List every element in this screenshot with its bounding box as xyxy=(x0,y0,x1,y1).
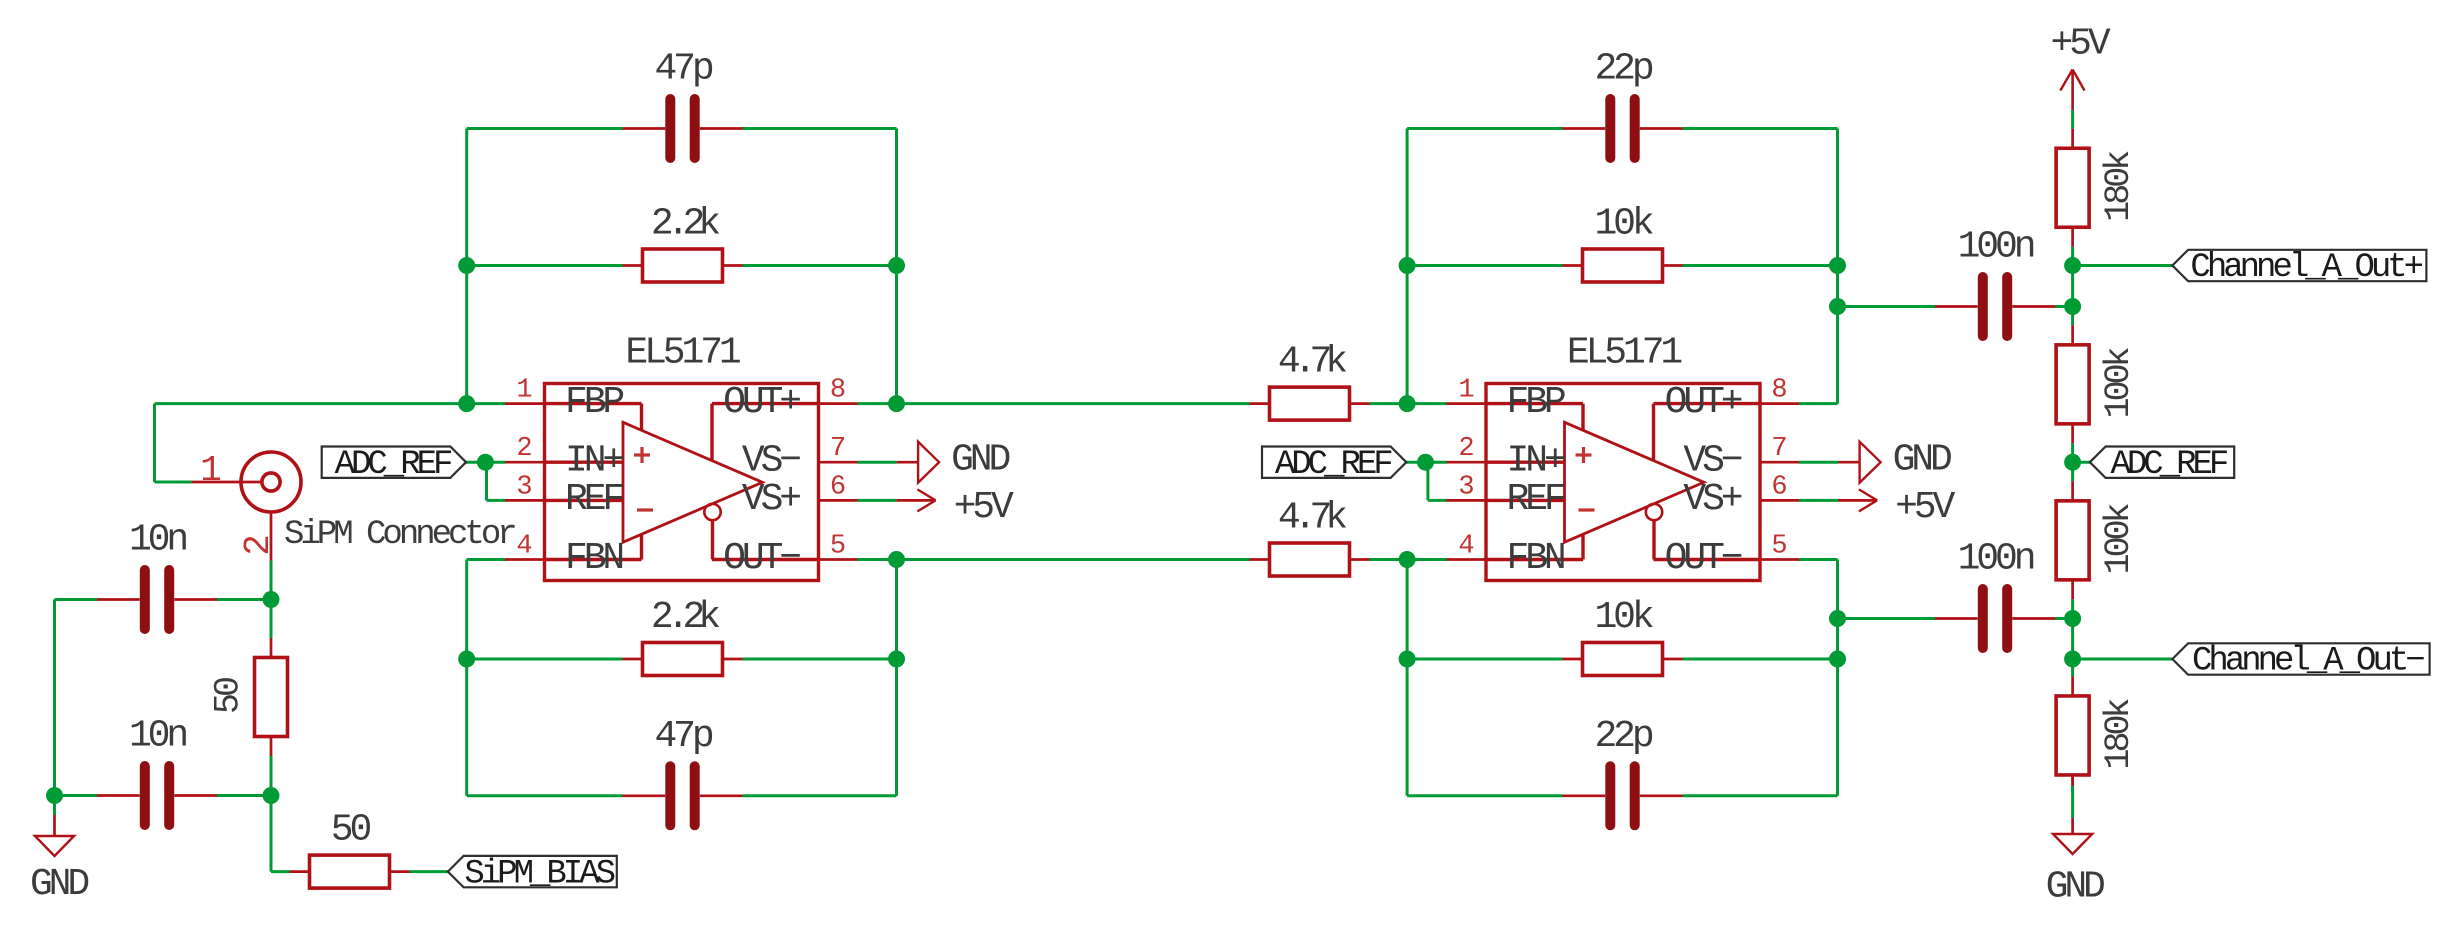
wire 10k upper right xyxy=(1683,264,1838,267)
svg-text:ADC_REF: ADC_REF xyxy=(2110,446,2227,484)
wire 2.2k upper left xyxy=(467,264,623,267)
op-amp U1 internal pin lines xyxy=(545,404,819,560)
capacitor C 10n lower xyxy=(97,715,217,826)
capacitor C 100n lower xyxy=(1935,538,2055,649)
svg-text:FBP: FBP xyxy=(565,381,623,424)
svg-text:4: 4 xyxy=(1458,532,1474,562)
wire 50 to SiPM_BIAS label xyxy=(410,870,448,873)
svg-text:4.7k: 4.7k xyxy=(1278,341,1346,384)
wire 10n lower right xyxy=(217,794,271,797)
svg-text:50: 50 xyxy=(331,809,371,852)
global label Channel_A_Out+ (output plus) xyxy=(2172,249,2426,287)
svg-text:ADC_REF: ADC_REF xyxy=(335,446,452,484)
svg-text:GND: GND xyxy=(1893,439,1951,482)
op-amp U1 EL5171 body xyxy=(545,384,819,581)
wire FBP1 net horizontal xyxy=(155,402,506,405)
wire 2.2k upper right xyxy=(743,264,897,267)
resistor R 2.2k upper xyxy=(623,203,743,283)
svg-text:8: 8 xyxy=(1771,376,1787,406)
wire ADC_REF to REF pin stage1 xyxy=(487,462,506,500)
junction OUT- stage1 xyxy=(888,551,905,568)
wire U1 pin6 to +5V flag xyxy=(858,499,897,502)
svg-text:VS−: VS− xyxy=(742,440,800,483)
svg-text:4: 4 xyxy=(516,532,532,562)
junction OUT+ stage1 xyxy=(888,395,905,412)
svg-text:1: 1 xyxy=(1458,376,1474,406)
global label ADC_REF (stage 1) wire xyxy=(466,461,505,464)
junction ADC_REF stage1 xyxy=(477,454,494,471)
wire U2 pin7 to GND flag xyxy=(1799,461,1838,464)
junction ADC_REF right xyxy=(2064,454,2081,471)
svg-text:100n: 100n xyxy=(1958,538,2034,581)
svg-text:4.7k: 4.7k xyxy=(1278,497,1346,540)
svg-text:SiPM Connector: SiPM Connector xyxy=(284,516,515,554)
wire 47p lower left xyxy=(467,794,623,797)
global label ADC_REF (left of U2 IN+) xyxy=(1262,446,1406,484)
wire ADC_REF to REF pin stage2 xyxy=(1428,462,1447,500)
junction FBP2 xyxy=(1399,395,1416,412)
wire 180k to Channel_A_Out+ node xyxy=(2071,247,2074,266)
wire stage2 right feedback vertical top xyxy=(1836,129,1839,404)
junction Channel_A_Out- node xyxy=(2064,651,2081,668)
wire 4.7k lower to stage2 FBN xyxy=(1370,558,1448,561)
wire 22p upper right xyxy=(1683,127,1838,130)
junction 2.2k lower left xyxy=(458,651,475,668)
svg-text:22p: 22p xyxy=(1594,715,1652,758)
op-amp U1 pin 3 REF xyxy=(505,472,623,521)
resistor R 2.2k lower xyxy=(623,596,743,676)
op-amp U1 pin 6 VS+ xyxy=(742,472,858,521)
svg-text:100n: 100n xyxy=(1958,226,2034,269)
svg-text:OUT−: OUT− xyxy=(723,537,800,580)
wire +5V to 180k xyxy=(2071,110,2074,129)
op-amp U2 pin 5 OUT&#8722; xyxy=(1665,532,1799,581)
wire 10k upper left xyxy=(1407,264,1562,267)
svg-text:22p: 22p xyxy=(1594,48,1652,91)
svg-text:2: 2 xyxy=(516,434,532,464)
wire 10n upper right xyxy=(217,598,271,601)
op-amp U1 pin 4 FBN xyxy=(505,532,622,581)
wire rail between out+ and cap node xyxy=(2071,266,2074,307)
op-amp U1 pin 2 IN+ xyxy=(505,434,623,483)
resistor R 50 bias xyxy=(290,809,410,889)
svg-text:7: 7 xyxy=(830,434,846,464)
wire left ground rail vertical xyxy=(53,600,56,796)
svg-text:VS+: VS+ xyxy=(1683,478,1741,521)
svg-text:2: 2 xyxy=(1458,434,1474,464)
junction 2.2k upper left xyxy=(458,257,475,274)
svg-text:2.2k: 2.2k xyxy=(651,596,719,639)
op-amp U2 EL5171 body xyxy=(1486,384,1760,581)
wire 10n upper left xyxy=(55,598,98,601)
svg-text:EL5171: EL5171 xyxy=(625,332,740,375)
wire 100n lower to rail xyxy=(2055,617,2073,620)
svg-text:10n: 10n xyxy=(129,519,186,562)
svg-text:2: 2 xyxy=(238,534,279,556)
junction 100n lower right xyxy=(2064,610,2081,627)
resistor R 100k lower xyxy=(2056,481,2139,599)
SiPM connector pin 1 lead xyxy=(191,450,262,491)
wire rail cap node to 100k upper xyxy=(2071,307,2074,326)
wire 47p upper left xyxy=(467,127,623,130)
op-amp U2 pin 4 FBN xyxy=(1447,532,1564,581)
svg-text:47p: 47p xyxy=(654,715,712,758)
wire 4.7k upper to stage2 FBP xyxy=(1370,402,1448,405)
svg-text:EL5171: EL5171 xyxy=(1567,332,1682,375)
svg-text:GND: GND xyxy=(951,439,1009,482)
ground symbol (left GND) xyxy=(30,836,88,906)
power flag +5V (U1 VS+) xyxy=(897,486,1014,529)
svg-text:5: 5 xyxy=(830,532,846,562)
power symbol +5V top xyxy=(2050,23,2110,111)
op-amp U2 pin 3 REF xyxy=(1447,472,1565,521)
svg-text:VS+: VS+ xyxy=(742,478,800,521)
svg-text:GND: GND xyxy=(30,863,88,906)
svg-text:Channel_A_Out−: Channel_A_Out− xyxy=(2192,643,2424,681)
resistor R 50 termination xyxy=(209,638,288,756)
wire to 100n upper xyxy=(1838,305,1936,308)
op-amp U2 triangle xyxy=(1565,422,1704,542)
power flag GND (U1 VS-) xyxy=(897,439,1010,483)
op-amp U1 pin 8 OUT+ xyxy=(723,376,857,425)
wire stage2 left feedback vertical bottom xyxy=(1406,560,1409,796)
wire stage2 left feedback vertical top xyxy=(1406,129,1409,404)
svg-text:10n: 10n xyxy=(129,715,186,758)
svg-text:10k: 10k xyxy=(1594,203,1652,246)
global label ADC_REF (left of U1 IN+) xyxy=(322,446,466,484)
wire 100n upper to rail xyxy=(2055,305,2073,308)
wire out- node to 180k lower xyxy=(2071,659,2074,676)
wire 10k lower right xyxy=(1683,658,1838,661)
svg-text:FBN: FBN xyxy=(1507,537,1564,580)
junction FBN2 xyxy=(1399,551,1416,568)
svg-text:FBN: FBN xyxy=(565,537,622,580)
global label ADC_REF (stage 2) wire xyxy=(1406,461,1447,464)
svg-text:6: 6 xyxy=(830,472,846,502)
svg-text:VS−: VS− xyxy=(1683,440,1741,483)
wire to 100n lower xyxy=(1838,617,1936,620)
svg-text:50: 50 xyxy=(209,678,249,714)
resistor R 100k upper xyxy=(2056,325,2139,443)
svg-text:6: 6 xyxy=(1771,472,1787,502)
junction 2.2k upper right xyxy=(888,257,905,274)
wire connector pin1 to FBP net xyxy=(155,404,192,482)
wire Channel_A_Out- label wire xyxy=(2073,658,2173,661)
svg-text:8: 8 xyxy=(830,376,846,406)
resistor R 180k lower xyxy=(2056,676,2139,794)
svg-text:+5V: +5V xyxy=(2050,23,2110,66)
op-amp U1 triangle xyxy=(623,422,762,542)
junction SiPM node xyxy=(263,591,280,608)
op-amp U2 pin 6 VS+ xyxy=(1683,472,1799,521)
svg-text:ADC_REF: ADC_REF xyxy=(1275,446,1392,484)
power flag GND (U2 VS-) xyxy=(1838,439,1951,483)
wire OUT- stage1 to 4.7k xyxy=(858,558,1250,561)
wire connector pin2 down to filter node xyxy=(270,561,273,639)
junction 10k upper left xyxy=(1399,257,1416,274)
op-amp U1 pin 5 OUT&#8722; xyxy=(723,532,857,581)
svg-text:1: 1 xyxy=(200,450,222,491)
junction 100n lower left xyxy=(1829,610,1846,627)
op-amp U1 pin 7 VS&#8722; xyxy=(742,434,858,483)
wire 100k lower to cap node xyxy=(2071,599,2074,618)
global label SiPM_BIAS (bias output) xyxy=(448,855,617,893)
global label ADC_REF (right rail reference) xyxy=(2090,446,2234,484)
global label Channel_A_Out&#8722; (output minus) xyxy=(2172,643,2429,681)
wire 10n lower left xyxy=(55,794,98,797)
wire 2.2k lower right xyxy=(743,658,897,661)
wire 47p lower right xyxy=(743,794,897,797)
junction 2.2k lower right xyxy=(888,651,905,668)
svg-text:GND: GND xyxy=(2046,866,2104,909)
wire rail between cap node and out- node xyxy=(2071,619,2074,660)
wire 180k lower to GND xyxy=(2071,775,2074,834)
svg-text:FBP: FBP xyxy=(1507,381,1565,424)
wire FBN1 to vertical xyxy=(467,558,505,561)
ground symbol (right GND) xyxy=(2046,834,2104,909)
wire ADC_REF node to 100k lower xyxy=(2071,462,2074,481)
wire node down to SiPM_BIAS row xyxy=(271,796,290,872)
svg-text:7: 7 xyxy=(1771,434,1787,464)
junction FBP1 / feedback xyxy=(458,395,475,412)
power flag +5V (U2 VS+) xyxy=(1838,486,1955,529)
wire 2.2k lower left xyxy=(467,658,623,661)
svg-text:3: 3 xyxy=(1458,472,1474,502)
op-amp U1 pin 1 FBP xyxy=(505,376,623,425)
svg-text:OUT+: OUT+ xyxy=(1665,381,1742,424)
wire U1 pin7 to GND flag xyxy=(858,461,897,464)
capacitor C 22p lower xyxy=(1563,715,1683,826)
wire stage1 right feedback vertical bottom xyxy=(895,560,898,796)
op-amp U2 internal pin lines xyxy=(1486,404,1760,560)
wire OUT+ stage1 to 4.7k xyxy=(858,402,1250,405)
wire stage1 right feedback vertical top xyxy=(895,129,898,404)
wire 50 bottom to node xyxy=(270,756,273,796)
svg-text:SiPM_BIAS: SiPM_BIAS xyxy=(464,855,614,893)
svg-text:REF: REF xyxy=(1507,478,1565,521)
capacitor C 47p upper xyxy=(623,48,743,159)
resistor R 4.7k upper interstage xyxy=(1250,341,1370,421)
svg-text:180k: 180k xyxy=(2099,151,2139,222)
svg-text:1: 1 xyxy=(516,376,532,406)
SiPM coaxial connector J1 xyxy=(241,452,301,512)
svg-text:5: 5 xyxy=(1771,532,1787,562)
svg-text:Channel_A_Out+: Channel_A_Out+ xyxy=(2190,249,2422,287)
wire stage2 right feedback vertical bottom xyxy=(1836,560,1839,796)
op-amp U2 pin 2 IN+ xyxy=(1447,434,1565,483)
svg-text:10k: 10k xyxy=(1594,596,1652,639)
wire 47p upper right xyxy=(743,127,897,130)
wire 22p lower left xyxy=(1407,794,1562,797)
wire 100k upper to ADC_REF node xyxy=(2071,443,2074,462)
svg-text:IN+: IN+ xyxy=(1507,440,1565,483)
svg-text:IN+: IN+ xyxy=(565,440,623,483)
svg-text:+5V: +5V xyxy=(954,486,1014,529)
op-amp U2 pin 1 FBP xyxy=(1447,376,1565,425)
capacitor C 100n upper xyxy=(1935,226,2055,337)
junction bottom filter node xyxy=(263,787,280,804)
svg-text:+5V: +5V xyxy=(1895,486,1955,529)
wire U2 pin6 to +5V flag xyxy=(1799,499,1838,502)
junction Channel_A_Out+ node xyxy=(2064,257,2081,274)
svg-text:3: 3 xyxy=(516,472,532,502)
svg-text:100k: 100k xyxy=(2099,347,2139,418)
wire ADC_REF right label wire xyxy=(2073,461,2090,464)
wire 22p upper left xyxy=(1407,127,1562,130)
op-amp U2 pin 8 OUT+ xyxy=(1665,376,1799,425)
wire stage1 left feedback vertical top xyxy=(465,129,468,404)
wire 22p lower right xyxy=(1683,794,1838,797)
resistor R 10k upper xyxy=(1563,203,1683,283)
svg-text:2.2k: 2.2k xyxy=(651,203,719,246)
svg-text:OUT−: OUT− xyxy=(1665,537,1742,580)
wire OUT+ stage2 to right vertical xyxy=(1799,402,1838,405)
SiPM connector pin 2 lead xyxy=(238,512,279,561)
resistor R 4.7k lower interstage xyxy=(1250,497,1370,577)
capacitor C 47p lower xyxy=(623,715,743,826)
junction ADC_REF stage2 xyxy=(1417,454,1434,471)
svg-text:REF: REF xyxy=(565,478,623,521)
capacitor C 10n upper xyxy=(97,519,217,630)
svg-text:100k: 100k xyxy=(2099,503,2139,574)
junction 100n upper left xyxy=(1829,298,1846,315)
wire 10k lower left xyxy=(1407,658,1562,661)
wire GND stem left xyxy=(53,796,56,837)
junction left GND node xyxy=(46,787,63,804)
junction 100n upper right xyxy=(2064,298,2081,315)
svg-text:180k: 180k xyxy=(2099,698,2139,769)
wire stage1 left feedback vertical bottom xyxy=(465,560,468,796)
svg-text:OUT+: OUT+ xyxy=(723,381,800,424)
op-amp U2 pin 7 VS&#8722; xyxy=(1683,434,1799,483)
capacitor C 22p upper xyxy=(1563,48,1683,159)
wire Channel_A_Out+ label wire xyxy=(2073,264,2173,267)
junction 10k lower right xyxy=(1829,651,1846,668)
junction 10k upper right xyxy=(1829,257,1846,274)
resistor R 180k upper xyxy=(2056,129,2139,247)
svg-text:47p: 47p xyxy=(654,48,712,91)
wire OUT- stage2 to right vertical xyxy=(1799,558,1838,561)
resistor R 10k lower xyxy=(1563,596,1683,676)
junction 10k lower left xyxy=(1399,651,1416,668)
